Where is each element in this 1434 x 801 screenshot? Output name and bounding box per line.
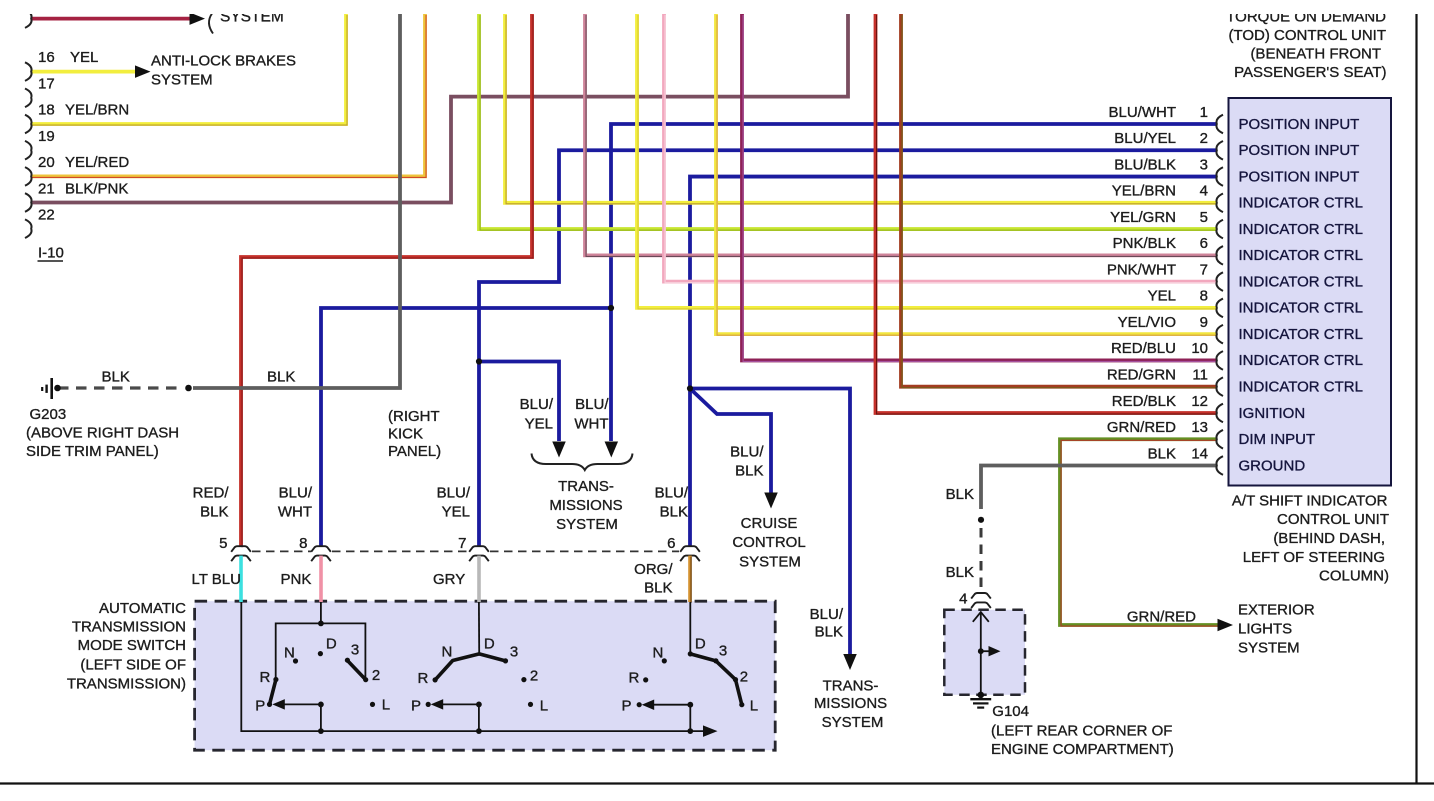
svg-text:YEL: YEL [1148, 288, 1176, 305]
arrow to cruise control system [764, 493, 778, 509]
svg-text:PNK: PNK [281, 571, 312, 588]
svg-text:MISSIONS: MISSIONS [814, 695, 887, 712]
wire BLK G203 riser [193, 14, 400, 388]
svg-text:(BENEATH FRONT: (BENEATH FRONT [1250, 45, 1381, 62]
svg-text:TRANS-: TRANS- [823, 678, 879, 695]
wire YEL/GRN to pin5 [479, 14, 1216, 229]
svg-text:4: 4 [959, 591, 967, 608]
svg-text:BLK: BLK [815, 624, 843, 641]
svg-text:MISSIONS: MISSIONS [549, 497, 622, 514]
svg-text:BLU/: BLU/ [437, 485, 471, 502]
svg-text:SYSTEM: SYSTEM [739, 554, 801, 571]
svg-text:COLUMN): COLUMN) [1319, 568, 1389, 585]
switch 2 contact D-3 [479, 654, 505, 661]
svg-text:RED/GRN: RED/GRN [1107, 367, 1176, 384]
svg-text:20: 20 [38, 154, 55, 171]
svg-text:(LEFT REAR CORNER OF: (LEFT REAR CORNER OF [991, 723, 1172, 740]
connector pin 12 arc at control unit [1216, 404, 1223, 423]
svg-text:POSITION INPUT: POSITION INPUT [1239, 142, 1360, 159]
svg-text:BLK: BLK [735, 463, 763, 480]
wire BLK dashed from G203 [58, 386, 182, 389]
junction node BLK G104 [978, 517, 984, 523]
arrow to exterior lights system [1218, 619, 1234, 632]
svg-text:INDICATOR CTRL: INDICATOR CTRL [1239, 247, 1363, 264]
svg-text:D: D [695, 636, 706, 653]
svg-text:L: L [750, 698, 758, 715]
svg-text:A/T SHIFT INDICATOR: A/T SHIFT INDICATOR [1232, 493, 1388, 510]
svg-text:ENGINE COMPARTMENT): ENGINE COMPARTMENT) [991, 741, 1174, 758]
svg-text:YEL/BRN: YEL/BRN [65, 102, 129, 119]
svg-text:YEL: YEL [70, 49, 98, 66]
svg-text:11: 11 [1192, 367, 1208, 384]
svg-text:19: 19 [38, 128, 55, 145]
svg-text:SYSTEM: SYSTEM [1238, 640, 1300, 657]
connector pin 5 arc at control unit [1216, 220, 1223, 239]
svg-text:5: 5 [219, 535, 227, 552]
svg-text:GRN/RED: GRN/RED [1127, 609, 1196, 626]
junction dot BLK splice [185, 385, 192, 392]
svg-text:(TOD) CONTROL UNIT: (TOD) CONTROL UNIT [1229, 27, 1387, 44]
switch 1 position dots [293, 658, 298, 663]
switch 2 position dots [433, 677, 438, 682]
wire BLU/YEL branch to transmission-system arrow [479, 362, 559, 442]
svg-text:I-10: I-10 [38, 245, 64, 262]
svg-text:N: N [284, 645, 295, 662]
svg-text:14: 14 [1191, 445, 1208, 462]
svg-text:N: N [653, 645, 664, 662]
svg-text:8: 8 [1200, 288, 1208, 305]
wire BLU/BLK branch to cruise control system [690, 389, 771, 493]
wire BLU/WHT pin1 to TOD-unit / transmission system [611, 124, 1216, 441]
svg-text:SIDE TRIM PANEL): SIDE TRIM PANEL) [26, 443, 159, 460]
connector 4 symbol at G104 [971, 593, 991, 599]
svg-text:BLU/YEL: BLU/YEL [1114, 130, 1176, 147]
connector pin 2 arc at control unit [1216, 141, 1223, 160]
switch 3 position dots [662, 658, 667, 663]
svg-text:SYSTEM: SYSTEM [556, 516, 618, 533]
connector pin 9 arc at control unit [1216, 325, 1223, 344]
connector pin 7 symbol [469, 546, 489, 552]
ground G203 symbol [50, 378, 53, 399]
svg-text:18: 18 [38, 102, 55, 119]
svg-text:2: 2 [1200, 130, 1208, 147]
svg-text:MODE SWITCH: MODE SWITCH [78, 637, 186, 654]
svg-text:PASSENGER'S SEAT): PASSENGER'S SEAT) [1234, 64, 1386, 81]
switch 2 contact D-N-R [435, 654, 479, 680]
wire YEL/BRN pin18 [31, 14, 346, 124]
A/T shift indicator control unit box [1229, 98, 1392, 486]
svg-text:G203: G203 [30, 406, 67, 423]
svg-text:BLK: BLK [644, 580, 672, 597]
connector pin 3 arc at control unit [1216, 167, 1223, 186]
junction node BLU/WHT [608, 305, 614, 311]
G104 internal right arrow branch [981, 650, 989, 652]
wire RED/BLU to pin10 [742, 14, 1216, 360]
svg-text:YEL/GRN: YEL/GRN [1110, 209, 1176, 226]
connector pin 8 symbol [311, 546, 331, 552]
arrow to anti-lock brakes [135, 65, 151, 78]
switch 3 P arrow [652, 704, 690, 706]
svg-text:BLU/: BLU/ [575, 396, 609, 413]
wire BLU/WHT branch to lower connector pin 8 [321, 308, 611, 546]
svg-text:EXTERIOR: EXTERIOR [1238, 602, 1315, 619]
svg-text:ANTI-LOCK BRAKES: ANTI-LOCK BRAKES [151, 53, 296, 70]
svg-text:2: 2 [372, 667, 380, 684]
svg-text:PNK/WHT: PNK/WHT [1107, 261, 1176, 278]
svg-text:3: 3 [510, 644, 518, 661]
svg-text:(RIGHT: (RIGHT [388, 408, 440, 425]
svg-text:2: 2 [530, 668, 538, 685]
switch 1 P arrow line [283, 703, 321, 705]
G104 bottom junction dot [978, 692, 985, 699]
svg-text:16: 16 [38, 49, 55, 66]
svg-text:17: 17 [38, 75, 55, 92]
svg-text:WHT: WHT [278, 504, 312, 521]
svg-text:CONTROL: CONTROL [732, 534, 805, 551]
G104 ground box [944, 610, 1025, 695]
connector pin 4 arc at control unit [1216, 194, 1223, 213]
svg-text:POSITION INPUT: POSITION INPUT [1239, 116, 1360, 133]
switch 3 feed [689, 602, 691, 654]
svg-text:GRY: GRY [433, 571, 465, 588]
wire YEL pin16 to anti-lock brakes [31, 70, 136, 74]
svg-text:BLK: BLK [660, 504, 688, 521]
connector pin 1 arc at control unit [1216, 115, 1223, 134]
svg-text:SYSTEM: SYSTEM [151, 72, 213, 89]
wire YEL/RED pin20 [31, 14, 425, 176]
svg-text:PNK/BLK: PNK/BLK [1113, 235, 1176, 252]
svg-text:AUTOMATIC: AUTOMATIC [99, 600, 186, 617]
svg-text:BLK: BLK [200, 504, 228, 521]
svg-text:7: 7 [458, 535, 466, 552]
svg-text:(BEHIND DASH,: (BEHIND DASH, [1273, 530, 1385, 547]
svg-text:7: 7 [1200, 261, 1208, 278]
svg-text:POSITION INPUT: POSITION INPUT [1239, 168, 1360, 185]
wire RED/BLK to pin12 [876, 14, 1217, 413]
svg-text:YEL/RED: YEL/RED [65, 154, 129, 171]
svg-text:BLU/: BLU/ [730, 444, 764, 461]
svg-text:RED/BLK: RED/BLK [1112, 393, 1176, 410]
svg-text:3: 3 [351, 642, 359, 659]
svg-text:BLU/: BLU/ [279, 485, 313, 502]
automatic transmission mode switch box [195, 601, 776, 750]
connector pin 10 arc at control unit [1216, 351, 1223, 370]
switch 1 feed and bracket [320, 602, 322, 623]
connector I-10 pin19 arc [25, 141, 32, 160]
svg-text:IGNITION: IGNITION [1239, 405, 1306, 422]
svg-text:BLK: BLK [1148, 445, 1176, 462]
wire BLK/PNK pin21 [31, 14, 848, 203]
svg-text:BLK/PNK: BLK/PNK [65, 180, 128, 197]
svg-text:BLU/: BLU/ [520, 396, 554, 413]
svg-text:BLK: BLK [946, 486, 974, 503]
svg-text:INDICATOR CTRL: INDICATOR CTRL [1239, 221, 1363, 238]
svg-text:R: R [260, 669, 271, 686]
svg-text:L: L [540, 698, 548, 715]
svg-text:6: 6 [667, 535, 675, 552]
svg-text:INDICATOR CTRL: INDICATOR CTRL [1239, 273, 1363, 290]
svg-text:(LEFT SIDE OF: (LEFT SIDE OF [80, 657, 186, 674]
svg-text:WHT: WHT [574, 416, 608, 433]
svg-text:R: R [629, 670, 640, 687]
connector pin 13 arc at control unit [1216, 430, 1223, 449]
svg-text:1: 1 [1200, 104, 1208, 121]
wire YEL/BRN to pin4 [505, 14, 1216, 203]
G104 internal vertical with up arrow [980, 613, 982, 695]
arrow to transmissions system [843, 654, 857, 670]
connector I-10 pin22 arc [25, 219, 32, 238]
svg-text:YEL: YEL [525, 416, 553, 433]
connector pin 14 arc at control unit [1216, 456, 1223, 475]
svg-text:D: D [484, 636, 495, 653]
svg-text:PANEL): PANEL) [388, 443, 441, 460]
connector I-10 pin18 arc [25, 115, 32, 134]
diagram border right [1415, 14, 1417, 784]
svg-text:RED/BLU: RED/BLU [1111, 340, 1176, 357]
bus arrow [703, 725, 718, 737]
svg-text:BLU/: BLU/ [810, 606, 844, 623]
switch 2 P arrow [441, 703, 479, 705]
wire PNK to switch [319, 556, 323, 602]
svg-text:BLU/: BLU/ [655, 485, 689, 502]
svg-text:12: 12 [1191, 393, 1208, 410]
connector I-10 pin15 arc (partial) [25, 9, 32, 28]
switch 1 contact R-P [270, 680, 276, 705]
brace transmissions system [532, 454, 633, 471]
svg-text:6: 6 [1200, 235, 1208, 252]
wire PNK/BLK to pin6 [585, 14, 1216, 255]
svg-text:KICK: KICK [388, 426, 423, 443]
svg-text:TRANSMISSION): TRANSMISSION) [67, 676, 186, 693]
wire BLU/BLK pin3 to lower connector pin 6 [690, 177, 1216, 547]
svg-text:BLK: BLK [102, 369, 130, 386]
svg-text:INDICATOR CTRL: INDICATOR CTRL [1239, 195, 1363, 212]
svg-text:5: 5 [1200, 209, 1208, 226]
svg-text:13: 13 [1191, 419, 1208, 436]
svg-text:CONTROL UNIT: CONTROL UNIT [1277, 511, 1389, 528]
svg-text:BLK: BLK [946, 564, 974, 581]
wire YEL to pin8 [637, 14, 1216, 308]
svg-text:TRANSMISSION: TRANSMISSION [72, 619, 186, 636]
switch 2 feed [478, 602, 480, 654]
wire PNK/WHT to pin7 [664, 14, 1216, 282]
svg-text:CRUISE: CRUISE [741, 515, 798, 532]
svg-text:INDICATOR CTRL: INDICATOR CTRL [1239, 300, 1363, 317]
svg-text:R: R [418, 670, 429, 687]
svg-text:2: 2 [740, 669, 748, 686]
wire crimson wire to system (top) [31, 17, 191, 21]
wire RED/GRN to pin11 [901, 14, 1216, 387]
junction node BLU/BLK [687, 385, 693, 391]
svg-text:P: P [255, 698, 265, 715]
switch 3 contact D-3-2-L [690, 654, 742, 705]
diagram border bottom [0, 782, 1434, 784]
wire LT BLU to switch [239, 556, 243, 602]
connector pin 7 arc at control unit [1216, 272, 1223, 291]
svg-text:10: 10 [1191, 340, 1208, 357]
wire BLU/YEL pin2 [479, 150, 1216, 546]
arrow BLU/YEL into transmission brace [552, 442, 566, 458]
svg-text:L: L [382, 697, 390, 714]
svg-text:22: 22 [38, 207, 55, 224]
svg-text:D: D [326, 636, 337, 653]
svg-text:(ABOVE RIGHT DASH: (ABOVE RIGHT DASH [26, 425, 179, 442]
arrow BLU/WHT into transmission brace [605, 442, 619, 458]
svg-text:INDICATOR CTRL: INDICATOR CTRL [1239, 352, 1363, 369]
wire BLU/BLK branch to transmissions system [690, 389, 850, 655]
wire GRY to switch [477, 556, 481, 602]
connector I-10 pin21 arc [25, 193, 32, 212]
wire RED wire to lower connector pin 5 [241, 14, 532, 546]
svg-text:8: 8 [299, 535, 307, 552]
svg-text:G104: G104 [992, 703, 1029, 720]
wire BLK pin14 (solid segment) [981, 466, 1216, 509]
svg-text:YEL: YEL [442, 504, 470, 521]
svg-text:4: 4 [1200, 183, 1208, 200]
svg-text:3: 3 [1200, 156, 1208, 173]
connector pin 6 arc at control unit [1216, 246, 1223, 265]
svg-text:GROUND: GROUND [1239, 457, 1306, 474]
wire GRN/RED pin13 to exterior lights [1060, 439, 1218, 625]
svg-text:RED/: RED/ [193, 485, 230, 502]
wire ORG/BLK to switch [688, 556, 692, 602]
svg-text:LT BLU: LT BLU [192, 571, 241, 588]
connector I-10 pin20 arc [25, 167, 32, 186]
switch 1 contact 3-2 [347, 661, 365, 680]
junction dot at G203 [54, 385, 61, 392]
svg-text:P: P [411, 698, 421, 715]
svg-text:LEFT OF STEERING: LEFT OF STEERING [1243, 549, 1385, 566]
connector pin 6 symbol [680, 546, 700, 552]
svg-text:N: N [442, 644, 453, 661]
svg-text:P: P [622, 698, 632, 715]
junction node BLU/YEL [476, 358, 482, 364]
connector I-10 pin16 arc [25, 62, 32, 81]
ground G104 symbol [970, 698, 991, 700]
svg-text:YEL/VIO: YEL/VIO [1118, 314, 1176, 331]
svg-text:DIM INPUT: DIM INPUT [1239, 431, 1316, 448]
svg-text:3: 3 [719, 643, 727, 660]
connector pin 11 arc at control unit [1216, 377, 1223, 396]
svg-text:INDICATOR CTRL: INDICATOR CTRL [1239, 326, 1363, 343]
svg-text:LIGHTS: LIGHTS [1238, 621, 1292, 638]
wire YEL/VIO to pin9 [716, 14, 1216, 334]
connector pin 5 symbol [231, 546, 251, 552]
svg-text:9: 9 [1200, 314, 1208, 331]
svg-text:GRN/RED: GRN/RED [1107, 419, 1176, 436]
svg-text:INDICATOR CTRL: INDICATOR CTRL [1239, 379, 1363, 396]
svg-text:SYSTEM: SYSTEM [822, 714, 884, 731]
svg-text:YEL/BRN: YEL/BRN [1112, 183, 1176, 200]
label partial SYSTEM (top, cropped) [209, 14, 213, 34]
wire BLK dashed segment to G104 connector [980, 528, 983, 592]
svg-text:21: 21 [38, 180, 55, 197]
svg-text:BLU/BLK: BLU/BLK [1114, 156, 1176, 173]
connector I-10 pin17 arc [25, 89, 32, 108]
in-line connector dashed line [252, 550, 311, 552]
svg-text:ORG/: ORG/ [634, 561, 673, 578]
connector pin 8 arc at control unit [1216, 299, 1223, 318]
svg-text:BLK: BLK [267, 369, 295, 386]
svg-text:TRANS-: TRANS- [558, 478, 614, 495]
svg-text:BLU/WHT: BLU/WHT [1109, 104, 1177, 121]
arrow to system (top left) [190, 12, 206, 25]
switch 1 internal riser (LT BLU continuation) [241, 602, 703, 731]
